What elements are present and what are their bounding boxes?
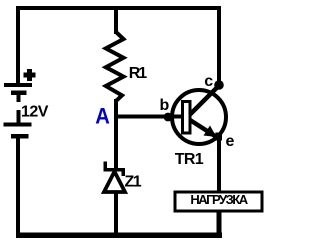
wire left vertical (battery top lead) <box>16 6 20 85</box>
svg-text:R1: R1 <box>129 65 148 82</box>
wire resistor bottom to zener <box>114 99 118 169</box>
wire resistor top lead <box>114 6 118 34</box>
node b junction dot <box>164 113 173 122</box>
wire collector vertical <box>217 6 221 85</box>
transistor TR1 emitter diagonal with arrow <box>190 120 217 137</box>
svg-text:Z1: Z1 <box>125 173 142 190</box>
wire load bottom lead <box>217 211 222 234</box>
svg-text:e: e <box>226 133 235 150</box>
transistor TR1 body circle <box>172 90 226 144</box>
zener diode Z1 cathode bar <box>104 168 126 172</box>
wire zener bottom lead <box>114 192 118 234</box>
wire base horizontal <box>114 115 182 119</box>
battery B1 plus sign <box>24 69 36 81</box>
svg-text:c: c <box>204 73 213 90</box>
battery B1 long plate 2 <box>4 123 32 127</box>
battery B1 long plate 1 <box>4 83 32 87</box>
wire emitter vertical to load <box>217 133 221 191</box>
zener diode Z1 triangle <box>104 172 125 193</box>
battery B1 short plate 1 <box>11 91 27 96</box>
wire bottom rail <box>16 233 222 239</box>
battery B1 stub above plate 2 <box>17 110 21 123</box>
svg-text:A: A <box>95 103 110 128</box>
battery B1 stub below plate 1 <box>17 95 21 102</box>
svg-text:12V: 12V <box>21 104 49 121</box>
transistor TR1 base bar <box>183 102 191 134</box>
wire top rail <box>16 6 221 10</box>
wire left vertical (battery bottom lead) <box>16 138 20 238</box>
zener diode Z1 left tab <box>104 162 108 169</box>
resistor R1 zigzag <box>106 32 124 101</box>
battery B1 short plate 2 <box>11 134 29 139</box>
node c junction dot <box>214 80 224 90</box>
transistor TR1 collector diagonal <box>190 86 219 115</box>
svg-text:НАГРУЗКА: НАГРУЗКА <box>190 192 248 207</box>
emitter junction blob <box>216 133 223 141</box>
svg-text:TR1: TR1 <box>175 151 204 168</box>
load box НАГРУЗКА <box>175 192 262 211</box>
svg-text:b: b <box>160 97 170 114</box>
zener diode Z1 right tab <box>122 171 126 176</box>
